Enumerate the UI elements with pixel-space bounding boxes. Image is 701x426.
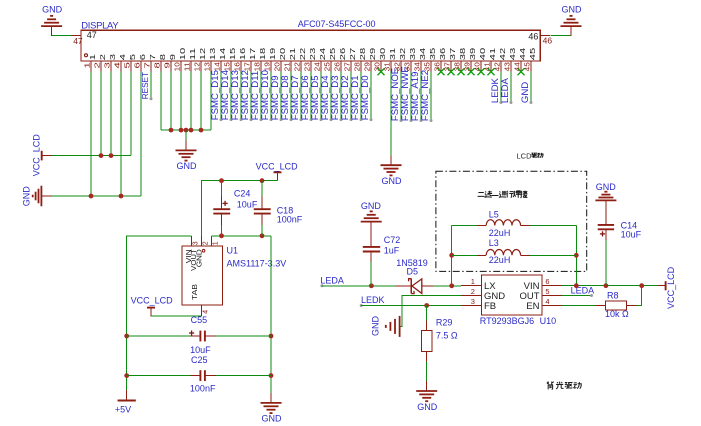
- svg-text:13: 13: [203, 62, 212, 71]
- svg-text:39: 39: [463, 62, 472, 71]
- svg-text:39: 39: [468, 48, 477, 60]
- svg-text:43: 43: [503, 62, 512, 71]
- svg-text:21: 21: [288, 48, 297, 60]
- svg-text:38: 38: [453, 62, 462, 71]
- svg-text:34: 34: [418, 48, 427, 60]
- svg-text:VCC_LCD: VCC_LCD: [31, 134, 41, 177]
- svg-text:LEDA: LEDA: [571, 286, 595, 296]
- svg-text:GND: GND: [177, 161, 198, 171]
- svg-text:45: 45: [528, 48, 537, 60]
- svg-text:GND: GND: [371, 316, 381, 337]
- svg-text:1: 1: [471, 277, 475, 286]
- svg-text:23: 23: [308, 48, 317, 60]
- svg-text:8: 8: [153, 62, 162, 68]
- svg-text:2: 2: [98, 54, 107, 60]
- svg-text:16: 16: [238, 48, 247, 60]
- svg-text:40: 40: [478, 48, 487, 60]
- svg-text:C72: C72: [384, 235, 401, 245]
- svg-text:FSMC_NE2: FSMC_NE2: [420, 70, 431, 121]
- svg-text:TAB: TAB: [190, 284, 199, 300]
- svg-text:22uH: 22uH: [489, 228, 511, 238]
- svg-text:23: 23: [303, 62, 312, 71]
- svg-text:1: 1: [88, 54, 97, 60]
- svg-text:11: 11: [188, 48, 197, 60]
- svg-text:41: 41: [483, 62, 492, 71]
- svg-text:100nF: 100nF: [190, 383, 216, 393]
- svg-text:D5: D5: [407, 266, 419, 276]
- svg-text:2: 2: [93, 62, 102, 68]
- svg-text:9: 9: [163, 62, 172, 68]
- svg-text:7.5 Ω: 7.5 Ω: [436, 331, 458, 341]
- svg-text:13: 13: [208, 48, 217, 60]
- svg-text:10uF: 10uF: [237, 200, 258, 210]
- svg-text:VCC_LCD: VCC_LCD: [256, 161, 299, 171]
- svg-text:4: 4: [545, 297, 549, 306]
- svg-text:29: 29: [368, 48, 377, 60]
- svg-text:14: 14: [213, 62, 222, 71]
- svg-text:8: 8: [158, 54, 167, 60]
- svg-text:10: 10: [173, 62, 182, 71]
- svg-text:47: 47: [87, 30, 97, 40]
- svg-text:GND: GND: [382, 176, 403, 186]
- svg-text:7: 7: [148, 54, 157, 60]
- svg-text:R8: R8: [607, 290, 619, 300]
- svg-text:24: 24: [318, 48, 327, 60]
- svg-text:GND: GND: [562, 5, 583, 15]
- svg-text:7: 7: [143, 62, 152, 68]
- svg-text:100nF: 100nF: [277, 215, 303, 225]
- svg-text:9: 9: [168, 54, 177, 60]
- svg-text:4: 4: [118, 54, 127, 60]
- svg-text:FSMC_D0: FSMC_D0: [360, 75, 371, 120]
- svg-text:46: 46: [528, 31, 538, 41]
- svg-text:U1: U1: [227, 246, 239, 256]
- svg-text:FB: FB: [484, 301, 496, 312]
- svg-text:25: 25: [323, 62, 332, 71]
- svg-text:44: 44: [518, 48, 527, 60]
- svg-text:17: 17: [243, 62, 252, 71]
- svg-text:20: 20: [278, 48, 287, 60]
- svg-text:2: 2: [471, 287, 475, 296]
- svg-text:16: 16: [233, 62, 242, 71]
- svg-text:27: 27: [343, 62, 352, 71]
- svg-text:L3: L3: [489, 238, 499, 248]
- svg-text:21: 21: [283, 62, 292, 71]
- svg-text:VCC_LCD: VCC_LCD: [131, 296, 174, 306]
- svg-text:C25: C25: [191, 355, 208, 365]
- svg-text:3: 3: [471, 297, 475, 306]
- svg-text:25: 25: [328, 48, 337, 60]
- svg-text:41: 41: [488, 48, 497, 60]
- svg-text:38: 38: [458, 48, 467, 60]
- svg-text:28: 28: [358, 48, 367, 60]
- svg-text:GND: GND: [417, 402, 438, 412]
- svg-text:30: 30: [378, 48, 387, 60]
- svg-text:GND: GND: [195, 249, 204, 267]
- svg-text:22uH: 22uH: [489, 255, 511, 265]
- svg-text:40: 40: [473, 62, 482, 71]
- svg-text:26: 26: [338, 48, 347, 60]
- svg-text:LEDK: LEDK: [361, 295, 385, 305]
- svg-text:19: 19: [268, 48, 277, 60]
- svg-text:10uF: 10uF: [190, 345, 211, 355]
- svg-text:12: 12: [193, 62, 202, 71]
- svg-text:11: 11: [183, 62, 192, 71]
- svg-text:6: 6: [133, 62, 142, 68]
- svg-text:12: 12: [198, 48, 207, 60]
- svg-text:3: 3: [108, 54, 117, 60]
- svg-text:C24: C24: [234, 188, 251, 198]
- svg-text:20: 20: [273, 62, 282, 71]
- svg-text:35: 35: [428, 48, 437, 60]
- svg-text:4: 4: [113, 62, 122, 68]
- svg-text:C55: C55: [191, 315, 208, 325]
- svg-text:30: 30: [373, 62, 382, 71]
- svg-text:AMS1117-3.3V: AMS1117-3.3V: [227, 258, 287, 268]
- svg-text:36: 36: [433, 62, 442, 71]
- svg-text:LCD: LCD: [517, 151, 533, 160]
- svg-text:L5: L5: [489, 209, 499, 219]
- svg-text:GND: GND: [42, 5, 63, 15]
- svg-text:+5V: +5V: [115, 405, 131, 415]
- svg-text:27: 27: [348, 48, 357, 60]
- svg-text:6: 6: [138, 54, 147, 60]
- svg-text:VCC_LCD: VCC_LCD: [666, 266, 676, 309]
- svg-text:5: 5: [128, 54, 137, 60]
- svg-text:GND: GND: [520, 82, 531, 103]
- svg-text:3: 3: [193, 241, 200, 245]
- svg-text:43: 43: [508, 48, 517, 60]
- svg-text:46: 46: [543, 36, 553, 46]
- svg-text:10uF: 10uF: [621, 230, 642, 240]
- svg-text:5: 5: [123, 62, 132, 68]
- svg-text:10k Ω: 10k Ω: [605, 309, 629, 319]
- svg-text:LEDA: LEDA: [320, 275, 344, 285]
- svg-text:10: 10: [178, 48, 187, 60]
- svg-text:GND: GND: [262, 414, 283, 424]
- svg-text:RT9293BGJ6: RT9293BGJ6: [480, 316, 534, 326]
- svg-text:19: 19: [263, 62, 272, 71]
- svg-text:EN: EN: [526, 301, 539, 312]
- svg-text:5: 5: [545, 287, 549, 296]
- svg-text:37: 37: [448, 48, 457, 60]
- svg-text:6: 6: [545, 277, 549, 286]
- svg-text:29: 29: [363, 62, 372, 71]
- svg-text:33: 33: [408, 48, 417, 60]
- svg-text:32: 32: [398, 48, 407, 60]
- svg-text:22: 22: [298, 48, 307, 60]
- svg-text:4: 4: [203, 310, 210, 314]
- svg-text:18: 18: [258, 48, 267, 60]
- svg-text:14: 14: [218, 48, 227, 60]
- svg-text:GND: GND: [361, 201, 382, 211]
- svg-text:2: 2: [203, 241, 210, 245]
- svg-text:18: 18: [253, 62, 262, 71]
- svg-text:45: 45: [523, 62, 532, 71]
- svg-text:24: 24: [313, 62, 322, 71]
- svg-text:17: 17: [248, 48, 257, 60]
- svg-text:28: 28: [353, 62, 362, 71]
- svg-text:15: 15: [228, 48, 237, 60]
- svg-text:42: 42: [493, 62, 502, 71]
- svg-text:47: 47: [73, 36, 83, 46]
- svg-text:15: 15: [223, 62, 232, 71]
- svg-text:1: 1: [213, 241, 220, 245]
- svg-text:31: 31: [388, 48, 397, 60]
- svg-text:AFC07-S45FCC-00: AFC07-S45FCC-00: [298, 19, 376, 29]
- svg-text:1uF: 1uF: [384, 245, 400, 255]
- svg-text:U10: U10: [540, 316, 557, 326]
- svg-text:LEDA: LEDA: [500, 77, 511, 103]
- svg-text:3: 3: [103, 62, 112, 68]
- svg-text:RESET: RESET: [141, 72, 150, 99]
- svg-text:R29: R29: [436, 318, 453, 328]
- svg-text:1: 1: [83, 62, 92, 68]
- svg-text:36: 36: [438, 48, 447, 60]
- svg-text:GND: GND: [21, 186, 31, 207]
- svg-text:26: 26: [333, 62, 342, 71]
- svg-text:44: 44: [513, 62, 522, 71]
- svg-text:22: 22: [293, 62, 302, 71]
- svg-text:GND: GND: [596, 182, 617, 192]
- svg-text:42: 42: [498, 48, 507, 60]
- svg-text:37: 37: [443, 62, 452, 71]
